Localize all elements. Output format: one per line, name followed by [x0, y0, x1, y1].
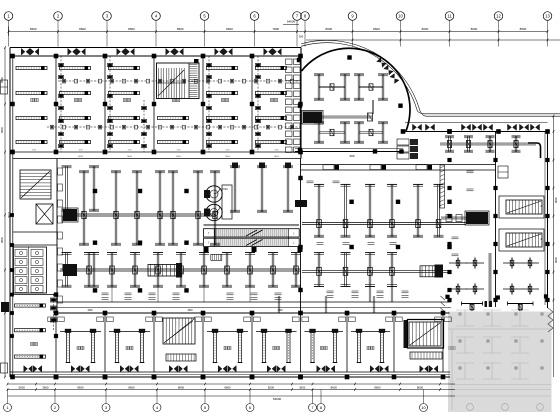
svg-text:8600: 8600	[178, 385, 185, 389]
svg-text:↓: ↓	[293, 240, 295, 245]
svg-text:8600: 8600	[177, 27, 184, 31]
svg-text:3600: 3600	[87, 310, 93, 312]
svg-text:8600: 8600	[128, 27, 135, 31]
svg-text:3600: 3600	[127, 156, 133, 158]
svg-text:11: 11	[447, 14, 452, 19]
svg-text:12: 12	[496, 14, 501, 19]
svg-text:8600: 8600	[30, 27, 37, 31]
svg-text:3600: 3600	[299, 385, 306, 389]
svg-text:8600: 8600	[417, 385, 424, 389]
svg-text:10: 10	[398, 14, 403, 19]
svg-text:5600: 5600	[19, 385, 26, 389]
svg-text:8600: 8600	[128, 385, 135, 389]
svg-text:54600: 54600	[273, 397, 282, 401]
svg-text:300: 300	[299, 35, 304, 39]
svg-text:8600: 8600	[0, 237, 4, 243]
svg-text:↓: ↓	[293, 231, 295, 236]
svg-text:8600: 8600	[520, 27, 527, 31]
svg-text:3600: 3600	[187, 310, 193, 312]
svg-text:8600: 8600	[325, 27, 332, 31]
svg-text:PAC3: PAC3	[8, 211, 11, 218]
svg-text:13: 13	[545, 14, 550, 19]
svg-text:8600: 8600	[374, 385, 381, 389]
svg-text:3600: 3600	[78, 156, 84, 158]
svg-text:7800: 7800	[272, 27, 279, 31]
svg-text:↑: ↑	[208, 231, 210, 236]
svg-text:8600: 8600	[77, 385, 84, 389]
svg-text:8600: 8600	[554, 197, 558, 203]
svg-text:8600: 8600	[471, 27, 478, 31]
svg-text:8600: 8600	[373, 27, 380, 31]
svg-text:8600: 8600	[79, 27, 86, 31]
svg-text:↑: ↑	[208, 240, 210, 245]
svg-text:8600: 8600	[331, 385, 338, 389]
svg-text:370A: 370A	[222, 188, 228, 191]
svg-text:8600: 8600	[226, 27, 233, 31]
svg-text:8600: 8600	[554, 257, 558, 263]
svg-text:54600: 54600	[287, 20, 296, 24]
svg-text:6600: 6600	[224, 385, 231, 389]
svg-text:3600: 3600	[42, 385, 49, 389]
svg-text:8600: 8600	[0, 127, 4, 133]
svg-text:8600: 8600	[422, 27, 429, 31]
svg-text:3600: 3600	[349, 155, 355, 158]
svg-text:10: 10	[421, 405, 426, 410]
svg-text:3600: 3600	[274, 156, 280, 158]
svg-text:3600: 3600	[225, 156, 231, 158]
svg-text:8200: 8200	[268, 385, 275, 389]
svg-text:3600: 3600	[176, 156, 182, 158]
